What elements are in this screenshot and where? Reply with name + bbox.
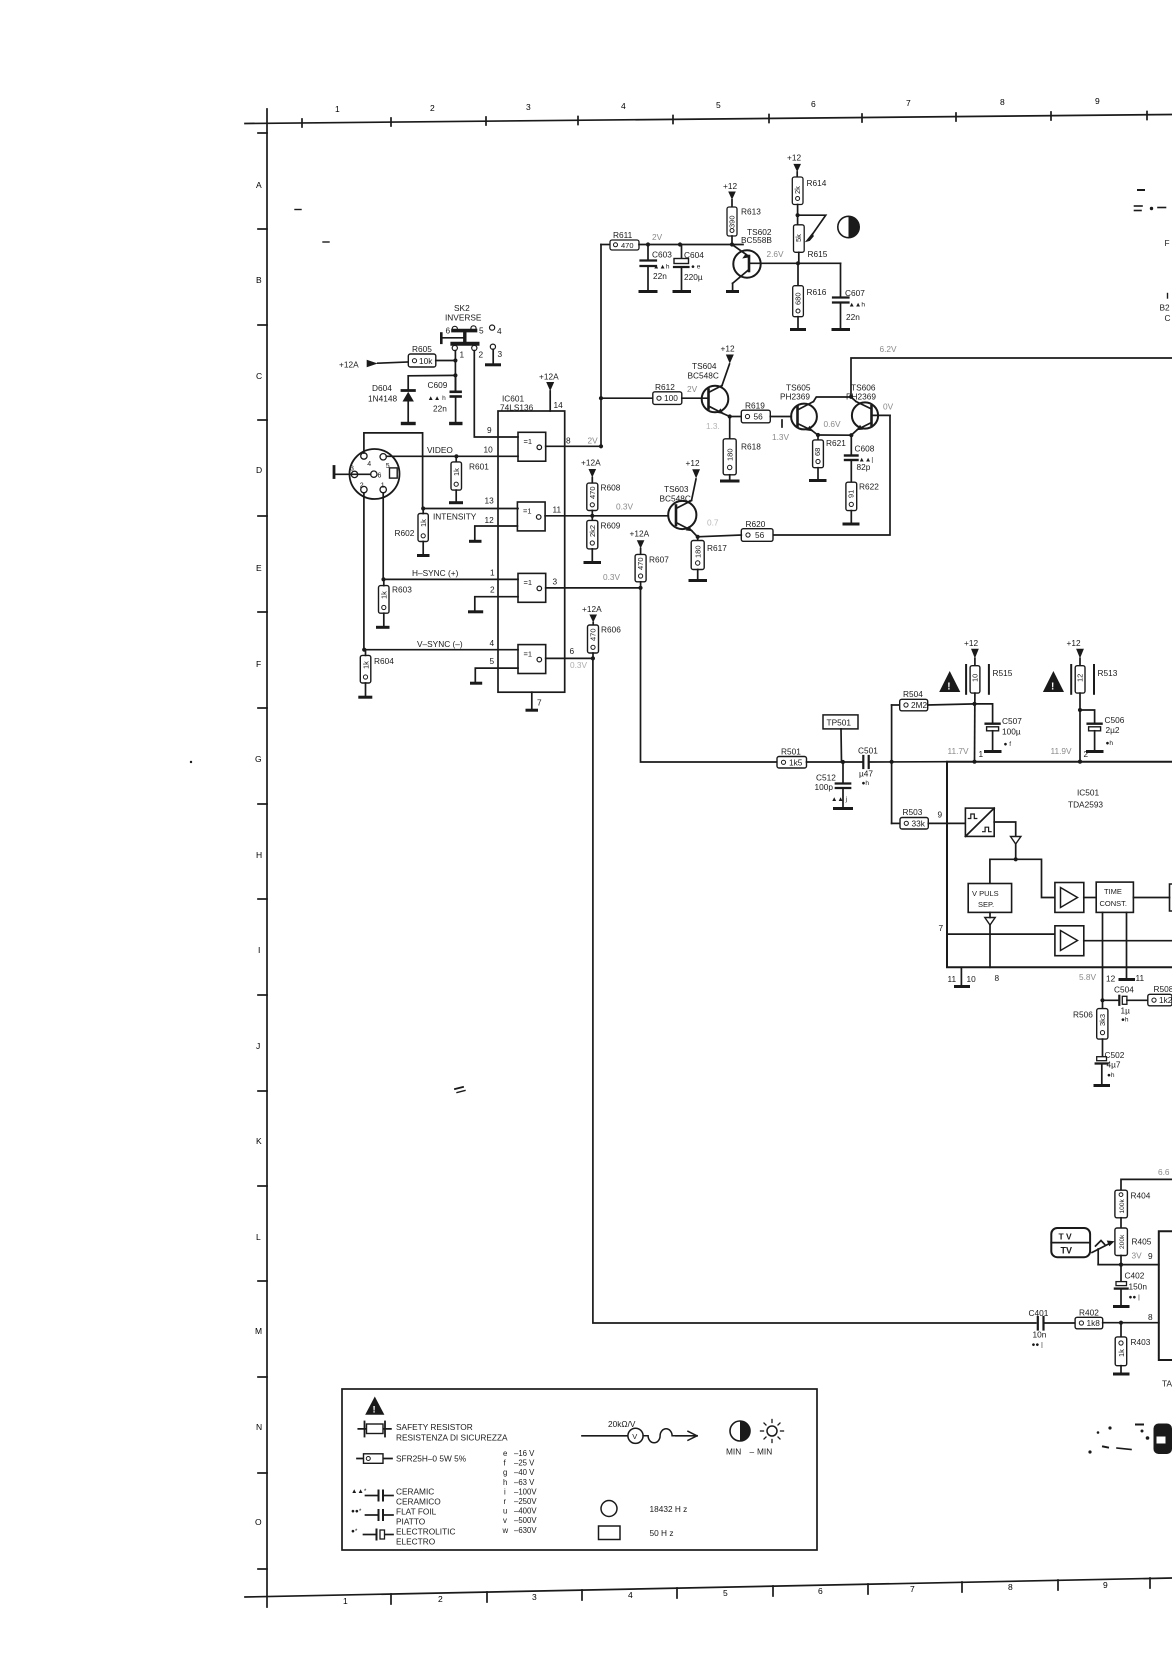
svg-text:MIN: MIN — [757, 1447, 772, 1457]
svg-text:R602: R602 — [395, 528, 415, 538]
svg-text:12: 12 — [1106, 974, 1116, 984]
block amplifier A2 — [1055, 926, 1172, 956]
power +12 R613 — [723, 181, 737, 207]
svg-text:u: u — [503, 1507, 507, 1516]
resistor R402 — [1075, 1308, 1103, 1329]
svg-text:C402: C402 — [1125, 1271, 1145, 1281]
svg-text:R607: R607 — [649, 555, 669, 565]
svg-text:e: e — [503, 1449, 507, 1458]
svg-text:5: 5 — [479, 326, 484, 336]
svg-text:●h: ●h — [862, 780, 870, 787]
svg-text:h: h — [503, 1478, 507, 1487]
node junction R608 on 0.3V wire — [590, 514, 594, 518]
svg-text:!: ! — [373, 1405, 376, 1416]
svg-text:0.3V: 0.3V — [616, 502, 634, 512]
svg-text:6.6: 6.6 — [1158, 1167, 1170, 1177]
node junction pin1 — [972, 760, 976, 764]
svg-text:2k2: 2k2 — [588, 525, 597, 537]
svg-text:470: 470 — [636, 557, 645, 570]
svg-text:–400V: –400V — [514, 1507, 537, 1516]
svg-text:–63 V: –63 V — [514, 1478, 535, 1487]
wire R402 to IC — [1103, 1322, 1159, 1324]
svg-text:R621: R621 — [826, 438, 846, 448]
legend electrolytic symbol — [351, 1527, 455, 1547]
wire gate b pin12 ground stub — [471, 526, 518, 541]
svg-text:C502: C502 — [1105, 1050, 1125, 1060]
node junction C604 — [678, 242, 682, 246]
svg-text:C506: C506 — [1105, 715, 1125, 725]
svg-text:1N4148: 1N4148 — [368, 394, 397, 404]
svg-text:INVERSE: INVERSE — [445, 313, 482, 323]
svg-text:R515: R515 — [993, 668, 1013, 678]
svg-text:C504: C504 — [1114, 985, 1134, 995]
svg-text:R506: R506 — [1073, 1010, 1093, 1020]
transistor TS602 — [732, 227, 798, 290]
pin labels bottom — [948, 973, 1145, 984]
svg-text:R403: R403 — [1131, 1337, 1151, 1347]
IC U601 74LS136 outline — [498, 394, 565, 693]
node junction wiper tap — [796, 213, 800, 217]
svg-text:D604: D604 — [372, 383, 392, 393]
svg-text:▲▲ h: ▲▲ h — [428, 395, 447, 402]
svg-text:R618: R618 — [741, 442, 761, 452]
svg-text:R405: R405 — [1132, 1237, 1152, 1247]
svg-text:150n: 150n — [1129, 1282, 1148, 1292]
IC U501 TDA2593 outline — [947, 762, 1172, 968]
svg-text:680: 680 — [793, 292, 802, 305]
ground SK2 pin 3 — [487, 349, 500, 365]
svg-text:6: 6 — [811, 99, 816, 109]
svg-text:–: – — [750, 1447, 755, 1457]
block amplifier A1 — [1055, 883, 1084, 913]
ground pin10 — [956, 967, 969, 986]
svg-text:R613: R613 — [741, 207, 761, 217]
svg-text:●● |: ●● | — [1032, 1342, 1044, 1349]
svg-text:ELECTROLITIC: ELECTROLITIC — [396, 1527, 455, 1537]
svg-text:µ47: µ47 — [859, 769, 873, 779]
svg-text:R603: R603 — [392, 585, 412, 595]
wire gate b output 0.3V — [545, 515, 668, 517]
svg-text:1.3V: 1.3V — [772, 432, 790, 442]
page edge fragments top right — [1135, 190, 1171, 323]
ground TS602 — [728, 290, 738, 293]
svg-text:V PULS: V PULS — [972, 889, 999, 898]
legend SFR25H symbol — [357, 1454, 467, 1464]
svg-text:14: 14 — [554, 400, 564, 410]
node junction R607 on hsync out — [638, 586, 642, 590]
svg-text:50 H z: 50 H z — [650, 1528, 674, 1538]
svg-text:2: 2 — [479, 350, 484, 360]
safety resistor R513 — [1071, 665, 1118, 694]
connector shield lead — [334, 467, 371, 478]
node junction TS603 emitter — [696, 535, 700, 539]
capacitor C512 — [815, 762, 851, 807]
svg-text:22n: 22n — [433, 404, 447, 414]
warning triangle left — [939, 671, 960, 693]
svg-text:8: 8 — [566, 436, 571, 446]
svg-text:▲▲h: ▲▲h — [653, 264, 670, 271]
svg-text:FLAT FOIL: FLAT FOIL — [396, 1507, 437, 1517]
wire TS605 collector up — [814, 397, 852, 402]
svg-text:●h: ●h — [1121, 1017, 1129, 1024]
svg-text:4: 4 — [628, 1590, 633, 1600]
svg-text:22n: 22n — [653, 271, 667, 281]
resistor R508 — [1148, 984, 1172, 1006]
node junction C504/R506 — [1100, 998, 1104, 1002]
ground C603 — [640, 290, 656, 293]
svg-text:I: I — [258, 945, 260, 955]
wire TS606 base feedback — [773, 415, 890, 535]
svg-text:TIME: TIME — [1104, 887, 1122, 896]
svg-text:6: 6 — [378, 473, 382, 480]
ground R602 — [419, 554, 429, 557]
svg-text:C609: C609 — [428, 380, 448, 390]
svg-text:1: 1 — [979, 749, 984, 759]
wire TIME CONST pin11 — [1126, 912, 1128, 977]
svg-text:r: r — [504, 1497, 507, 1506]
svg-text:CERAMICO: CERAMICO — [396, 1497, 441, 1507]
svg-text:H: H — [256, 850, 262, 860]
wire R515 to pin 1 — [974, 693, 976, 762]
ground C506 — [1088, 750, 1103, 753]
svg-text:D: D — [256, 465, 262, 475]
svg-text:12: 12 — [1076, 674, 1085, 682]
svg-text:SK2: SK2 — [454, 303, 470, 313]
svg-text:B2: B2 — [1160, 303, 1171, 313]
svg-text:R402: R402 — [1079, 1308, 1099, 1318]
svg-text:C507: C507 — [1002, 716, 1022, 726]
svg-text:=1: =1 — [524, 578, 533, 587]
svg-text:R609: R609 — [601, 521, 621, 531]
svg-text:K: K — [256, 1136, 262, 1146]
capacitor C504 — [1103, 985, 1148, 1024]
node junction R602 — [421, 506, 425, 510]
svg-text:!: ! — [1051, 682, 1054, 693]
node junction C609/D604 — [453, 373, 457, 377]
contrast icon — [838, 216, 859, 237]
svg-text:180: 180 — [726, 448, 735, 461]
svg-text:–25 V: –25 V — [514, 1459, 535, 1468]
svg-text:C501: C501 — [858, 746, 878, 756]
svg-text:2: 2 — [430, 103, 435, 113]
svg-text:1k8: 1k8 — [1087, 1318, 1101, 1328]
transistor TS603 — [660, 484, 698, 537]
ground R617 — [690, 579, 706, 582]
svg-text:9: 9 — [1095, 96, 1100, 106]
svg-text:1k: 1k — [361, 661, 370, 669]
resistor R603 — [379, 579, 413, 625]
power +12A R608 — [581, 458, 601, 484]
legend contrast icon — [726, 1421, 750, 1457]
svg-text:TS603: TS603 — [664, 484, 689, 494]
capacitor C604 electrolytic — [674, 245, 704, 291]
svg-text:R605: R605 — [412, 344, 432, 354]
wire — [639, 244, 743, 246]
svg-text:3k3: 3k3 — [1098, 1014, 1107, 1026]
svg-text:TS604: TS604 — [692, 361, 717, 371]
wire split tee — [990, 859, 1055, 897]
svg-text:v: v — [503, 1516, 507, 1525]
svg-text:1.3.: 1.3. — [706, 421, 720, 431]
svg-text:11: 11 — [1136, 973, 1145, 983]
svg-text:1k: 1k — [452, 468, 461, 476]
svg-text:1µ: 1µ — [1121, 1006, 1131, 1016]
svg-text:9: 9 — [938, 810, 943, 820]
wire 2V rail from R611 to TS602 base — [601, 244, 610, 246]
svg-text:4: 4 — [497, 326, 502, 336]
svg-text:–40 V: –40 V — [514, 1468, 535, 1477]
legend safety resistor symbol — [358, 1422, 508, 1443]
svg-text:●●*: ●●* — [351, 1508, 362, 1515]
capacitor C608 — [845, 435, 875, 482]
svg-text:R608: R608 — [601, 483, 621, 493]
svg-text:CONST.: CONST. — [1100, 899, 1128, 908]
wire INTENSITY pin4 route — [364, 433, 518, 509]
transistor TS605 — [780, 383, 818, 436]
svg-text:1: 1 — [490, 568, 495, 578]
node junction R601 — [454, 454, 458, 458]
svg-text:1k5: 1k5 — [789, 757, 803, 767]
svg-text:SEP.: SEP. — [978, 900, 994, 909]
svg-text:1k: 1k — [380, 591, 389, 599]
svg-text:4µ7: 4µ7 — [1107, 1060, 1121, 1070]
node junction R613 — [730, 242, 734, 246]
gate IC601b intensity — [485, 496, 562, 531]
svg-text:+12A: +12A — [539, 372, 559, 382]
svg-text:10n: 10n — [1033, 1330, 1047, 1340]
wire R501 to C501 — [807, 761, 864, 763]
svg-text:8: 8 — [1148, 1312, 1153, 1322]
svg-text:+12A: +12A — [630, 529, 650, 539]
wire TIME CONST pin12 — [1102, 912, 1104, 1000]
svg-text:+12: +12 — [721, 344, 735, 354]
wire branch down to R503 — [891, 762, 893, 824]
capacitor C501 — [858, 746, 878, 788]
svg-text:R622: R622 — [859, 482, 879, 492]
svg-text:12: 12 — [485, 515, 495, 525]
node junction R605/pin1 — [453, 358, 457, 362]
svg-text:2: 2 — [438, 1594, 443, 1604]
resistor R611 — [610, 230, 639, 250]
transistor TS606 — [846, 383, 890, 436]
svg-text:R604: R604 — [374, 656, 394, 666]
svg-text:▲▲ j: ▲▲ j — [831, 796, 847, 803]
svg-text:10: 10 — [971, 674, 980, 682]
capacitor C506 — [1080, 710, 1125, 750]
border frame left — [258, 109, 267, 1607]
svg-text:RESISTENZA DI SICUREZZA: RESISTENZA DI SICUREZZA — [396, 1433, 508, 1443]
svg-text:5.8V: 5.8V — [1079, 972, 1097, 982]
svg-text:C512: C512 — [816, 773, 836, 783]
node junction collectors — [849, 395, 853, 399]
svg-text:9: 9 — [487, 425, 492, 435]
power +12 TS604 collector — [721, 344, 735, 386]
svg-text:100p: 100p — [815, 782, 834, 792]
svg-text:470: 470 — [621, 241, 634, 250]
svg-text:470: 470 — [589, 628, 598, 641]
svg-text:●h: ●h — [1106, 740, 1114, 747]
transistor TS604 — [688, 361, 730, 417]
svg-text:R513: R513 — [1098, 668, 1118, 678]
resistor R616 — [793, 263, 827, 328]
border row letters — [255, 180, 262, 1527]
svg-text:10k: 10k — [419, 356, 433, 366]
svg-text:R508: R508 — [1154, 984, 1172, 994]
wire vsync long vertical to row M — [593, 658, 1036, 1323]
svg-text:4: 4 — [621, 101, 626, 111]
svg-text:L: L — [256, 1232, 261, 1242]
svg-text:R616: R616 — [807, 287, 827, 297]
legend box — [342, 1389, 817, 1550]
svg-text:3: 3 — [350, 466, 354, 473]
resistor R608 — [587, 483, 621, 516]
svg-text:PIATTO: PIATTO — [396, 1517, 426, 1527]
resistor R504 — [892, 689, 975, 711]
resistor R606 — [588, 625, 622, 659]
wire emitters — [818, 434, 851, 436]
legend meter symbol — [582, 1419, 697, 1443]
resistor R605 — [408, 344, 436, 367]
border column numbers bottom — [343, 1580, 1108, 1606]
svg-text:BC558B: BC558B — [741, 235, 772, 245]
svg-text:180: 180 — [694, 545, 703, 558]
ground R618 — [722, 480, 739, 483]
svg-text:3: 3 — [553, 577, 558, 587]
svg-text:●h: ●h — [1107, 1072, 1115, 1079]
ground C402 — [1115, 1305, 1129, 1308]
svg-text:N: N — [256, 1422, 262, 1432]
svg-text:+12: +12 — [1067, 638, 1081, 648]
svg-text:●● |: ●● | — [1129, 1294, 1141, 1301]
power +12A IC601 pin 14 — [539, 372, 563, 412]
wire V-SYNC pin2 route — [364, 493, 518, 650]
wire pulse out with arrow — [994, 822, 1021, 859]
svg-text:C603: C603 — [652, 250, 672, 260]
wire R513 to pin 2 — [1079, 693, 1081, 761]
svg-text:11.9V: 11.9V — [1051, 746, 1073, 756]
ground C502 — [1095, 1084, 1109, 1087]
node junction R612 branch — [599, 396, 603, 400]
svg-text:R503: R503 — [903, 807, 923, 817]
wire hsync to R501 — [641, 588, 778, 762]
svg-text:100: 100 — [664, 393, 678, 403]
wire to R612 — [601, 397, 653, 399]
resistor R404 — [1115, 1190, 1151, 1228]
capacitor C502 — [1096, 1050, 1125, 1084]
svg-text:220µ: 220µ — [684, 272, 703, 282]
svg-text:7: 7 — [906, 98, 911, 108]
resistor R613 — [727, 207, 761, 237]
svg-text:▲▲*: ▲▲* — [351, 1488, 367, 1495]
svg-text:13: 13 — [485, 496, 495, 506]
svg-text:R620: R620 — [746, 519, 766, 529]
wire gate c output 0.3V — [546, 587, 641, 589]
svg-text:1: 1 — [460, 350, 465, 360]
stray mark row J — [455, 1087, 465, 1093]
wire gate a output 2V — [546, 445, 601, 447]
wire R620 to TS603 emitter — [698, 535, 742, 537]
wire gate c pin2 ground stub — [470, 597, 519, 612]
svg-text:C604: C604 — [684, 250, 704, 260]
svg-text:11.7V: 11.7V — [948, 746, 970, 756]
svg-text:7: 7 — [910, 1584, 915, 1594]
svg-text:R619: R619 — [745, 401, 765, 411]
svg-text:3V: 3V — [1132, 1251, 1143, 1261]
wire VIDEO pin5 to gate — [386, 455, 518, 457]
node junction R405/C402 — [1119, 1263, 1123, 1267]
legend warning triangle — [365, 1397, 384, 1416]
svg-text:SAFETY RESISTOR: SAFETY RESISTOR — [396, 1422, 473, 1432]
ground R403 — [1115, 1373, 1129, 1376]
svg-text:+12: +12 — [787, 153, 801, 163]
svg-text:0.7: 0.7 — [707, 518, 719, 528]
wire emitter to R619 — [730, 416, 742, 418]
svg-text:R404: R404 — [1131, 1191, 1151, 1201]
power +12 TS603 collector — [686, 458, 701, 501]
svg-text:C: C — [1165, 313, 1171, 323]
wire pin7 line — [947, 933, 1055, 935]
resistor R620 — [741, 519, 773, 541]
svg-text:IC501: IC501 — [1077, 788, 1100, 798]
wire SK2 pin1 down — [454, 351, 456, 392]
svg-text:F: F — [256, 659, 261, 669]
svg-text:R612: R612 — [655, 382, 675, 392]
legend 50 Hz symbol — [599, 1526, 674, 1540]
power +12 R515 — [964, 638, 979, 666]
svg-text:=1: =1 — [524, 437, 533, 446]
border frame top — [245, 112, 1172, 128]
svg-text:R617: R617 — [707, 543, 727, 553]
svg-text:56: 56 — [754, 412, 764, 422]
ground R609 — [585, 561, 600, 564]
ground R604 — [360, 696, 371, 699]
ground C507 — [986, 750, 1001, 753]
wire R612 to TS604 — [682, 397, 709, 399]
svg-text:2.6V: 2.6V — [767, 249, 785, 259]
power +12 R513 — [1067, 638, 1084, 666]
resistor R609 — [587, 516, 621, 561]
svg-text:g: g — [503, 1468, 507, 1477]
svg-text:PH2369: PH2369 — [780, 392, 810, 402]
node junction R604 — [362, 648, 366, 652]
svg-text:100µ: 100µ — [1002, 727, 1021, 737]
svg-text:22n: 22n — [846, 312, 860, 322]
svg-text:5: 5 — [716, 100, 721, 110]
svg-text:1: 1 — [343, 1596, 348, 1606]
svg-text:SFR25H–0 5W 5%: SFR25H–0 5W 5% — [396, 1454, 467, 1464]
svg-text:2V: 2V — [588, 436, 599, 446]
svg-text:20kΩ/V: 20kΩ/V — [608, 1419, 636, 1429]
svg-text:470: 470 — [588, 486, 597, 499]
node junction C603 — [646, 242, 650, 246]
svg-text:B: B — [256, 275, 262, 285]
resistor R607 — [635, 554, 669, 588]
svg-text:C607: C607 — [845, 288, 865, 298]
wire video bus vertical — [600, 245, 602, 447]
ground C607 — [833, 328, 849, 331]
svg-text:+12: +12 — [686, 458, 700, 468]
capacitor C607 — [798, 263, 865, 328]
svg-text:T V: T V — [1059, 1232, 1073, 1242]
svg-text:74LS136: 74LS136 — [500, 403, 534, 413]
wire gate d pin5 ground stub — [472, 668, 519, 683]
svg-text:5: 5 — [386, 463, 390, 470]
svg-text:9: 9 — [1103, 1580, 1108, 1590]
node junction TS605 emitter R621 — [816, 433, 820, 437]
svg-text:5: 5 — [490, 656, 495, 666]
switch SK2 INVERSE — [441, 303, 502, 360]
node junction R504/R503 — [890, 760, 894, 764]
